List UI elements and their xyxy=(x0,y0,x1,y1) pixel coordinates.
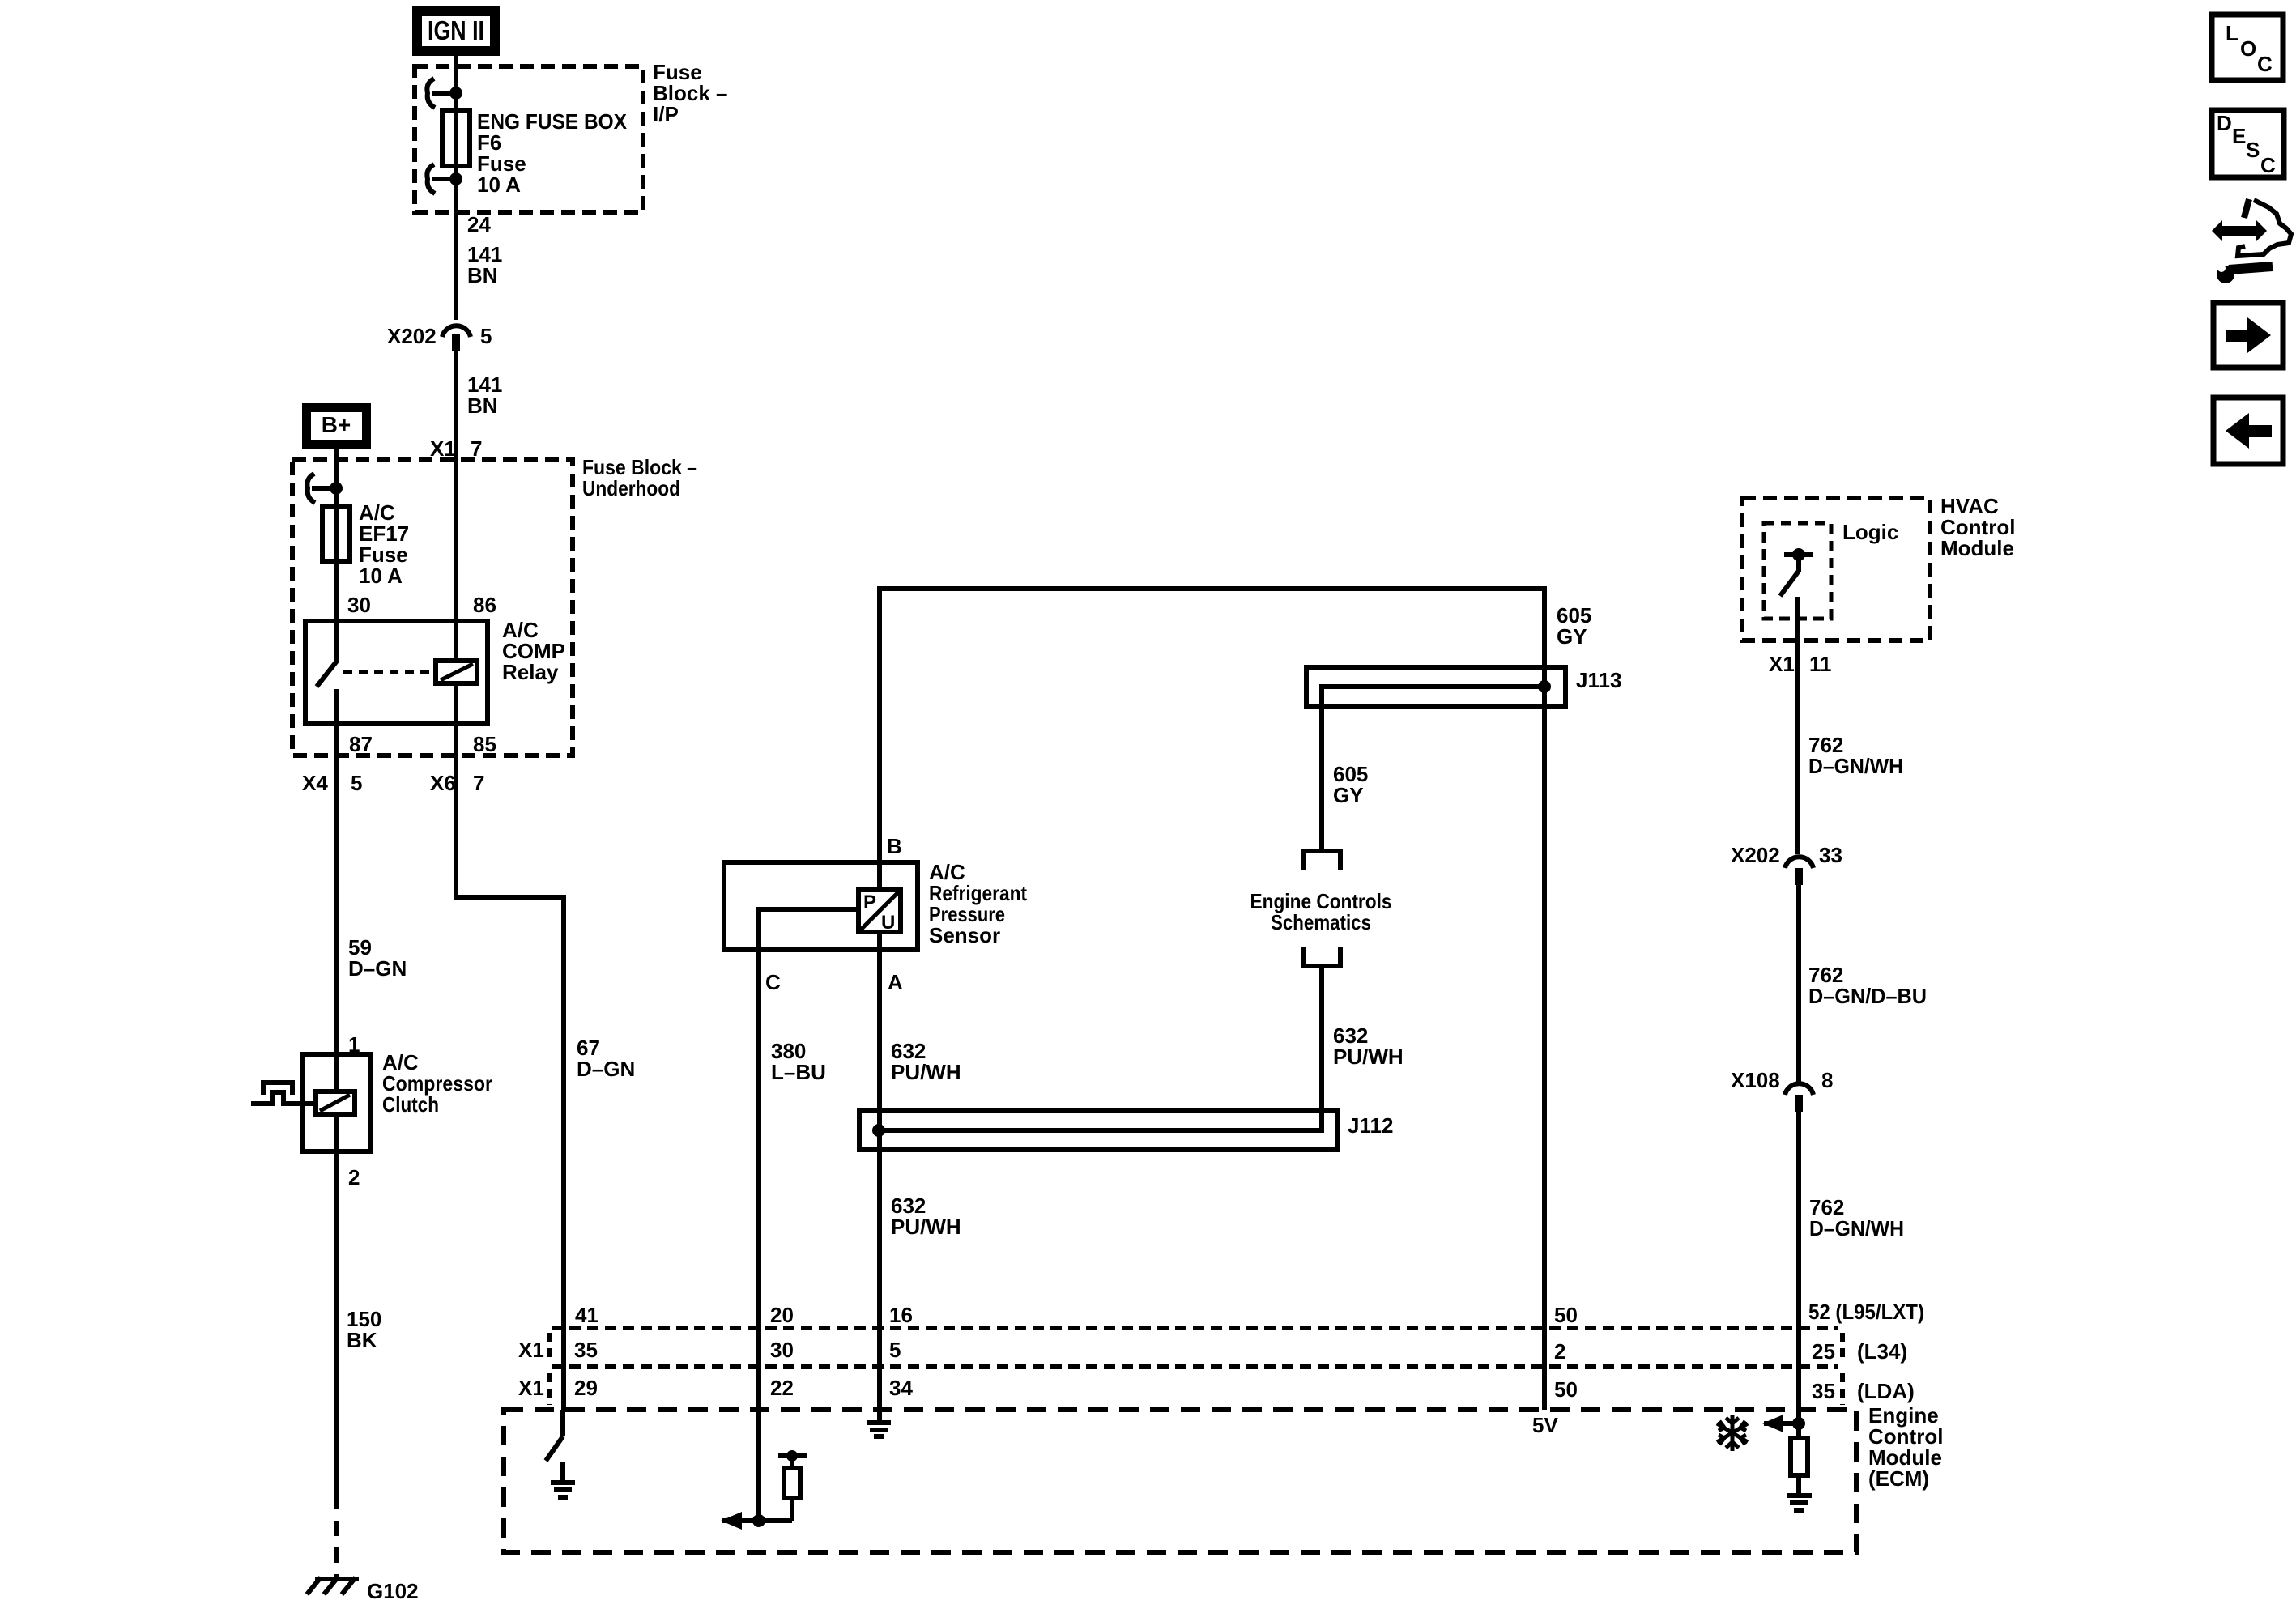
fuse F6 xyxy=(442,110,470,166)
fuse block I/P dashed box xyxy=(415,66,643,212)
svg-text:605GY: 605GY xyxy=(1333,762,1368,807)
connector X202 pin 5 xyxy=(387,324,492,351)
fuse block Underhood dashed box xyxy=(292,459,573,755)
icon forward arrow box xyxy=(2213,303,2283,368)
icon back arrow box xyxy=(2213,398,2283,464)
wire X108 to ECM xyxy=(1796,1112,1801,1438)
svg-text:G102: G102 xyxy=(367,1579,419,1603)
fuse clip bottom xyxy=(427,164,462,194)
svg-text:B: B xyxy=(887,834,902,858)
svg-text:Fuse Block –Underhood: Fuse Block –Underhood xyxy=(582,455,697,500)
svg-text:25: 25 xyxy=(1812,1339,1835,1364)
splice J112 internal wire xyxy=(879,1110,1322,1130)
svg-text:7: 7 xyxy=(473,771,484,795)
ground G102 xyxy=(307,1577,359,1594)
svg-text:5: 5 xyxy=(480,324,492,348)
svg-text:150BK: 150BK xyxy=(347,1307,381,1352)
svg-text:5: 5 xyxy=(351,771,362,795)
svg-text:22: 22 xyxy=(770,1376,794,1400)
A/C compressor clutch box xyxy=(302,1054,370,1151)
wire relay 85 down and jog right xyxy=(456,724,564,1410)
svg-text:IGN II: IGN II xyxy=(428,15,484,45)
ECM pull-up resistor on 380 circuit xyxy=(721,1450,807,1530)
splice J113 bar xyxy=(1306,667,1565,707)
svg-text:29: 29 xyxy=(574,1376,598,1400)
ECM arrow and resistor on HVAC circuit xyxy=(1762,1415,1812,1510)
svg-text:O: O xyxy=(2240,36,2256,61)
svg-text:U: U xyxy=(881,912,895,934)
wire top horizontal 605 GY xyxy=(877,586,1544,591)
svg-text:5: 5 xyxy=(889,1338,901,1362)
HVAC control module dashed box xyxy=(1742,498,1930,640)
svg-text:8: 8 xyxy=(1821,1068,1833,1092)
svg-text:X1: X1 xyxy=(1769,652,1795,676)
wire relay 87 to clutch xyxy=(334,724,339,1054)
svg-text:C: C xyxy=(765,970,781,994)
svg-text:24: 24 xyxy=(467,212,491,236)
wire sensor pin B up xyxy=(877,589,882,890)
icon diagnostic pointer with wrench xyxy=(2212,199,2291,283)
off-page bracket bottom xyxy=(1304,947,1340,966)
relay switch blade xyxy=(317,660,338,687)
svg-text:B+: B+ xyxy=(322,412,351,437)
svg-text:605GY: 605GY xyxy=(1557,603,1591,649)
svg-text:33: 33 xyxy=(1819,843,1842,867)
row end dotted left xyxy=(547,1333,552,1362)
wire logic to X202 xyxy=(1795,597,1800,854)
svg-text:2: 2 xyxy=(1554,1339,1565,1364)
svg-text:30: 30 xyxy=(347,593,371,617)
wire B+ to fuse EF17 xyxy=(334,449,339,506)
svg-text:J112: J112 xyxy=(1348,1113,1393,1138)
ECM connector row 1 xyxy=(552,1326,1838,1330)
logic switch xyxy=(1780,548,1813,596)
relay switch contact 30 xyxy=(334,621,339,662)
svg-text:X108: X108 xyxy=(1731,1068,1780,1092)
svg-text:50: 50 xyxy=(1554,1303,1578,1327)
relay coil xyxy=(436,661,477,683)
svg-text:85: 85 xyxy=(473,732,496,756)
svg-text:141BN: 141BN xyxy=(467,372,502,418)
wire bracket to splice J112 xyxy=(1319,966,1324,1130)
svg-text:(LDA): (LDA) xyxy=(1857,1379,1915,1403)
connector X108 pin 8 xyxy=(1731,1068,1833,1112)
svg-text:41: 41 xyxy=(575,1303,598,1327)
svg-text:35: 35 xyxy=(574,1338,598,1362)
svg-text:11: 11 xyxy=(1809,652,1832,676)
wire clutch to ground G102 xyxy=(334,1151,339,1494)
wire sensor pin C down xyxy=(756,950,761,1521)
connector X202 pin 33 xyxy=(1731,843,1842,885)
relay actuation dashed link xyxy=(343,670,436,674)
svg-text:(L34): (L34) xyxy=(1857,1339,1907,1364)
svg-text:C: C xyxy=(2260,153,2276,177)
wire EF17 to relay pin 30 xyxy=(334,561,339,621)
svg-text:E: E xyxy=(2232,124,2246,148)
row end dotted right xyxy=(1840,1333,1845,1362)
svg-text:87: 87 xyxy=(349,732,373,756)
relay A/C COMP box xyxy=(305,621,488,724)
svg-text:P: P xyxy=(863,891,876,913)
svg-text:X202: X202 xyxy=(1731,843,1780,867)
wire fuse F6 to connector X202 xyxy=(454,166,458,320)
fuse clip top xyxy=(427,79,462,108)
sensor internal wire to pin C xyxy=(759,909,858,950)
svg-text:20: 20 xyxy=(770,1303,794,1327)
wire 605 GY down right side xyxy=(1542,586,1547,1410)
power feed IGN II xyxy=(412,6,500,56)
svg-text:50: 50 xyxy=(1554,1377,1578,1402)
wire IGN II to fuse F6 xyxy=(454,56,458,110)
wire X202 to relay coil pin 86 xyxy=(454,351,458,621)
svg-text:52 (L95/LXT): 52 (L95/LXT) xyxy=(1808,1300,1924,1324)
svg-text:16: 16 xyxy=(889,1303,913,1327)
power feed B+ xyxy=(302,403,371,449)
A/C refrigerant pressure sensor box xyxy=(724,862,918,950)
wire J113 to bracket xyxy=(1319,707,1324,851)
fuse clip EF17 xyxy=(307,474,343,503)
svg-text:5V: 5V xyxy=(1532,1413,1558,1437)
sensor P/U element xyxy=(858,890,901,934)
svg-text:35: 35 xyxy=(1812,1379,1835,1403)
svg-text:C: C xyxy=(2257,52,2273,76)
svg-text:X1: X1 xyxy=(518,1338,544,1362)
svg-text:141BN: 141BN xyxy=(467,242,502,287)
off-page bracket top xyxy=(1304,851,1340,870)
svg-text:X4: X4 xyxy=(302,771,328,795)
splice J113 internal wire xyxy=(1322,687,1544,707)
svg-text:X202: X202 xyxy=(387,324,437,348)
svg-text:34: 34 xyxy=(889,1376,913,1400)
ECM connector row 2 xyxy=(552,1364,1838,1369)
clutch thermal step symbol xyxy=(251,1092,316,1104)
svg-text:2: 2 xyxy=(348,1165,360,1189)
svg-text:S: S xyxy=(2246,138,2260,162)
relay switch contact 87 xyxy=(334,689,339,724)
svg-text:Engine ControlsSchematics: Engine ControlsSchematics xyxy=(1250,889,1392,934)
svg-text:D: D xyxy=(2217,111,2232,135)
wire sensor pin A down xyxy=(877,932,882,1410)
ECM dashed box xyxy=(504,1410,1856,1552)
splice J112 bar xyxy=(859,1110,1338,1150)
wire X202 to X108 xyxy=(1796,885,1801,1082)
svg-text:86: 86 xyxy=(473,593,496,617)
fuse EF17 xyxy=(322,506,350,561)
ECM snowflake A/C request xyxy=(1717,1415,1748,1451)
svg-text:A: A xyxy=(888,970,903,994)
clutch coil xyxy=(316,1091,355,1114)
ECM ground on 632 circuit xyxy=(867,1410,891,1436)
svg-text:L: L xyxy=(2226,21,2238,45)
relay coil leads xyxy=(454,621,458,661)
svg-text:X1: X1 xyxy=(518,1376,544,1400)
svg-text:J113: J113 xyxy=(1576,668,1621,692)
svg-text:Logic: Logic xyxy=(1842,520,1898,544)
svg-text:X6: X6 xyxy=(430,771,456,795)
icon DESC box xyxy=(2212,110,2284,177)
icon LOC box xyxy=(2212,15,2283,80)
logic dashed box xyxy=(1764,523,1831,619)
ECM switch to ground xyxy=(546,1410,575,1497)
svg-text:30: 30 xyxy=(770,1338,794,1362)
